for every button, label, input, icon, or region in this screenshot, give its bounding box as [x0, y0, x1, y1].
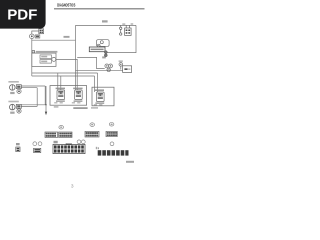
fuse SBF symbol — [120, 25, 122, 35]
wire mid right y70 — [76, 69, 124, 71]
connector group 1 (Twin Turbo) — [8, 81, 45, 106]
connector MB-4 symbol top-left — [30, 31, 40, 39]
wire bus y76 — [32, 75, 95, 77]
joint connectors mid-right — [105, 63, 123, 72]
label above link — [131, 23, 134, 24]
wire to ground — [45, 86, 47, 112]
wire pin S1b — [60, 76, 62, 90]
wire pin S1a — [57, 73, 59, 90]
wire bus y73 — [32, 72, 98, 74]
ignition switch assembly — [97, 40, 110, 47]
title rule — [54, 8, 145, 9]
wire pin S3a — [97, 73, 99, 92]
ground arrow — [45, 112, 47, 116]
relay box F/B — [32, 50, 58, 66]
connector view R1c — [106, 123, 117, 137]
wire MB4 line — [32, 39, 76, 41]
mini connector box upper — [39, 29, 44, 34]
wire ignition drop — [77, 57, 105, 68]
wire right drop x136 — [107, 25, 136, 52]
label above fuse — [122, 23, 125, 24]
ignition label block — [89, 47, 105, 52]
svg-text:3: 3 — [71, 184, 74, 190]
connector group 2 — [8, 86, 47, 115]
node junction — [45, 104, 46, 105]
connector view I2 — [33, 142, 42, 153]
wire top bus y25 — [76, 24, 137, 26]
label above joint — [119, 60, 123, 62]
connector view R1b — [85, 123, 99, 137]
label SBF-4 — [102, 20, 108, 22]
solenoid S3 — [94, 89, 104, 105]
label below box A — [73, 107, 87, 109]
PDF badge — [0, 0, 46, 29]
solenoid S1 — [54, 88, 65, 104]
ignition contacts — [104, 51, 107, 54]
connector view I4 — [96, 142, 129, 156]
ignition lower blob — [102, 56, 106, 58]
wire relay to S2 — [56, 59, 77, 90]
connector view I3 — [53, 140, 85, 154]
solenoid S2 — [72, 88, 83, 104]
svg-text:DIAGNOSTICS: DIAGNOSTICS — [57, 2, 76, 8]
footer ref text — [126, 161, 134, 163]
wire long vertical x75 — [75, 25, 77, 90]
solenoid box B — [91, 87, 114, 108]
label below box B — [91, 107, 98, 108]
solenoid box A — [50, 86, 88, 109]
label MB-4 on wire — [64, 36, 70, 38]
wire pin S3b — [94, 76, 96, 92]
fusible link box — [125, 25, 132, 35]
wire group1 pair — [22, 86, 46, 106]
wire left vertical x32 — [31, 39, 33, 76]
connector view I1 — [16, 143, 20, 152]
wire group2 pair — [22, 105, 47, 107]
connector view R1a — [45, 125, 72, 137]
small fuse box right — [123, 66, 132, 73]
svg-text:PDF: PDF — [7, 6, 37, 23]
